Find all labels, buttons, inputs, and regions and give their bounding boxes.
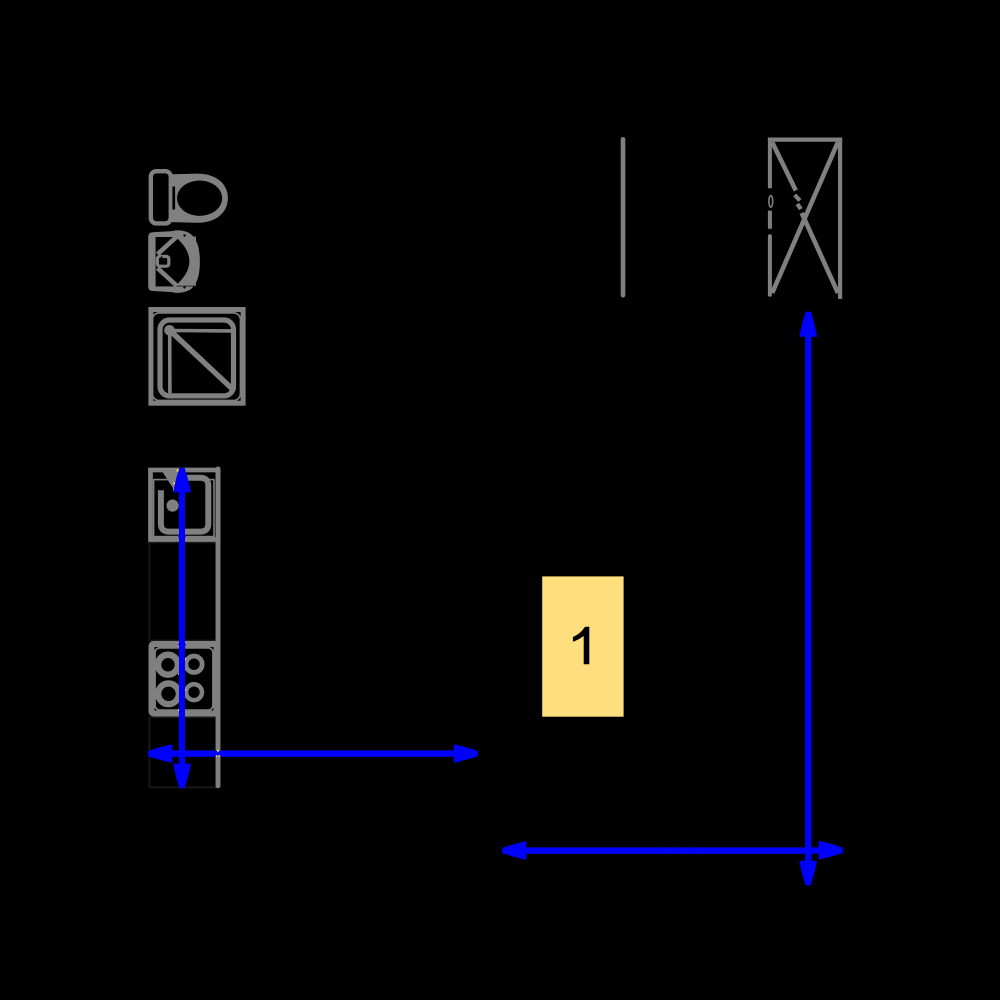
shaft left edge	[768, 138, 772, 189]
sink drain	[167, 500, 179, 512]
shaft top edge	[768, 138, 842, 142]
window shaft with X	[768, 138, 842, 299]
burner bottom-left	[158, 683, 179, 704]
kitchen sink unit	[151, 470, 219, 540]
sink chamfer	[162, 471, 180, 491]
toilet WC	[151, 171, 228, 223]
toilet bowl	[172, 174, 228, 223]
washbasin fan line top	[158, 237, 177, 255]
washbasin faucet	[157, 256, 168, 266]
shaft diagonal TR-BL	[772, 142, 838, 293]
toilet tank	[151, 171, 171, 223]
washbasin fan line bottom	[158, 268, 177, 286]
washbasin bowl rim fill	[175, 237, 196, 286]
shower tray	[151, 310, 243, 404]
dimension right vertical	[799, 312, 817, 886]
room label 1	[542, 576, 623, 716]
washbasin	[148, 230, 200, 293]
burner top-right	[186, 656, 202, 672]
kitchen counter right edge	[216, 469, 221, 786]
burner bottom-right	[186, 684, 202, 700]
burner top-left	[158, 655, 178, 675]
stove cooktop	[152, 644, 217, 714]
dimension left horizontal	[148, 744, 478, 763]
shower drain	[164, 325, 175, 336]
snap markers yellow	[173, 469, 186, 711]
dimension bottom horizontal	[502, 841, 843, 860]
kitchen counter bottom cabinet	[149, 717, 217, 787]
wall segment	[621, 139, 626, 295]
shaft diagonal TL-BR dashed	[772, 142, 796, 190]
kitchen counter middle cabinet	[149, 543, 217, 641]
door arc lens	[769, 196, 773, 208]
dimension kitchen vertical	[173, 468, 191, 789]
shaft right edge	[838, 138, 842, 299]
snap marker at counter crossing	[216, 750, 221, 757]
